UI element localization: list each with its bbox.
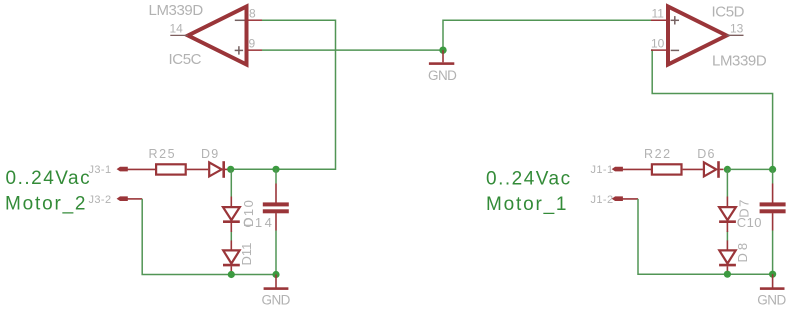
node D9 cathode junction bbox=[227, 166, 234, 173]
wire IC5D pin10 down and around to right capacitor column bbox=[651, 50, 773, 169]
diode D6 bbox=[697, 147, 723, 178]
pin 13 (IC5D output) bbox=[727, 22, 744, 36]
op-amp IC5C bbox=[188, 7, 247, 65]
ground GND (left bottom) bbox=[262, 275, 291, 308]
diode D11 bbox=[223, 241, 254, 275]
wire pin9 net: IC5C pin9 to GND junction bbox=[262, 49, 443, 51]
diode D10 bbox=[223, 197, 256, 233]
wire J3-2 down and along bottom bbox=[142, 199, 276, 275]
node capacitor C14 junction bbox=[272, 166, 279, 173]
diode D8 bbox=[719, 240, 750, 274]
svg-text:9: 9 bbox=[249, 36, 256, 50]
wire D7 branch vertical bbox=[726, 169, 728, 196]
svg-text:IC5C: IC5C bbox=[169, 51, 202, 68]
svg-text:C10: C10 bbox=[737, 215, 762, 230]
svg-text:LM339D: LM339D bbox=[149, 2, 204, 19]
svg-text:Motor_2: Motor_2 bbox=[5, 194, 87, 215]
svg-text:13: 13 bbox=[730, 22, 744, 36]
pin 10 (IC5D -in) bbox=[651, 36, 668, 50]
wire J1-2 stub bbox=[622, 198, 639, 200]
pin J3-2 bbox=[89, 194, 128, 206]
svg-text:C14: C14 bbox=[243, 215, 274, 230]
pin 9 (IC5C +in) bbox=[247, 36, 263, 50]
wire R22 to D6 bbox=[683, 168, 703, 170]
svg-text:GND: GND bbox=[757, 292, 786, 307]
pin 8 (IC5C -in) bbox=[247, 7, 263, 21]
svg-text:GND: GND bbox=[428, 68, 457, 83]
svg-text:J3-2: J3-2 bbox=[89, 194, 112, 206]
svg-text:Motor_1: Motor_1 bbox=[486, 194, 568, 215]
resistor R22 bbox=[644, 147, 682, 175]
svg-text:0..24Vac: 0..24Vac bbox=[6, 168, 92, 189]
svg-text:LM339D: LM339D bbox=[712, 52, 767, 69]
node D6 cathode junction bbox=[724, 166, 731, 173]
wire J1-2 down and along bottom bbox=[638, 199, 773, 274]
pin J1-2 bbox=[591, 194, 623, 206]
wire J1-1 to R22 bbox=[622, 168, 652, 170]
svg-text:J3-1: J3-1 bbox=[89, 164, 112, 176]
svg-text:10: 10 bbox=[651, 36, 665, 50]
svg-text:D8: D8 bbox=[735, 240, 750, 263]
wire R25 to D9 bbox=[187, 168, 208, 170]
svg-text:0..24Vac: 0..24Vac bbox=[486, 168, 572, 189]
svg-text:IC5D: IC5D bbox=[712, 3, 745, 20]
svg-text:R25: R25 bbox=[149, 147, 177, 161]
node GND junction bbox=[439, 46, 446, 53]
pin 11 (IC5D +in) bbox=[651, 6, 668, 20]
ground GND (right bottom) bbox=[757, 274, 786, 307]
svg-text:J1-1: J1-1 bbox=[591, 164, 614, 176]
pin J1-1 bbox=[591, 164, 623, 176]
node D8 bottom junction bbox=[724, 271, 731, 278]
wire D10 branch vertical bbox=[230, 169, 232, 196]
capacitor C10 bbox=[737, 169, 786, 274]
ground GND (top middle) bbox=[428, 50, 457, 83]
node C10 bottom junction bbox=[769, 271, 776, 278]
svg-text:11: 11 bbox=[652, 6, 665, 20]
svg-text:D11: D11 bbox=[239, 243, 254, 266]
wire J3-1 to R25 bbox=[127, 168, 156, 170]
pin J3-1 bbox=[89, 164, 128, 176]
wire J3-2 stub bbox=[127, 198, 143, 200]
wire pin8 net: IC5C pin8 to top-right corner bbox=[231, 20, 336, 169]
svg-text:D9: D9 bbox=[201, 147, 219, 161]
svg-text:J1-2: J1-2 bbox=[591, 194, 614, 206]
op-amp IC5D bbox=[668, 7, 727, 65]
wire D6 junction to cap junction bbox=[727, 168, 772, 170]
svg-text:14: 14 bbox=[170, 22, 184, 36]
pin 14 (IC5C output) bbox=[170, 22, 189, 36]
diode D9 bbox=[201, 147, 228, 178]
svg-text:D6: D6 bbox=[697, 147, 715, 161]
node D11 bottom junction bbox=[228, 271, 235, 278]
resistor R25 bbox=[149, 147, 186, 175]
svg-text:R22: R22 bbox=[644, 147, 672, 161]
svg-text:8: 8 bbox=[249, 7, 256, 21]
node C14 bottom junction bbox=[272, 271, 279, 278]
wire GND junction up to top wire bbox=[443, 20, 651, 50]
capacitor C14 bbox=[243, 169, 289, 274]
node capacitor C10 junction bbox=[769, 166, 776, 173]
diode D7 bbox=[719, 197, 751, 233]
svg-text:GND: GND bbox=[262, 292, 291, 307]
